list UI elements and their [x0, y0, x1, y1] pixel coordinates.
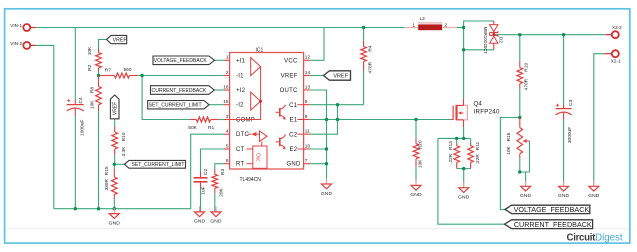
- svg-text:R19: R19: [524, 63, 530, 72]
- junction VIN rail R4: [362, 26, 365, 29]
- wire pin 7 stub: [310, 163, 327, 165]
- svg-text:8: 8: [305, 99, 308, 105]
- wire R4 branch from VIN rail: [363, 28, 365, 42]
- svg-text:C1: C1: [289, 103, 298, 109]
- svg-text:560: 560: [124, 67, 132, 73]
- svg-text:4: 4: [226, 129, 229, 135]
- wire SET_CURRENT_LIMIT stub: [114, 163, 124, 165]
- wire sense resistor top rail: [438, 137, 471, 139]
- net label VREF vertical: [110, 95, 119, 119]
- svg-text:1uF: 1uF: [201, 186, 207, 194]
- wire node to D2 anode top: [464, 21, 494, 28]
- wire R19 branch from output: [519, 35, 521, 61]
- svg-text:E2: E2: [289, 147, 297, 153]
- net label VOLTAGE_FEEDBACK bottom: [505, 205, 590, 214]
- wire emitter net down to GND: [326, 120, 328, 185]
- wire X2-1 return to GND: [594, 54, 605, 187]
- svg-text:SET_CURRENT_LIMIT: SET_CURRENT_LIMIT: [149, 103, 202, 109]
- wire CURRENT_FEEDBACK to pin 16: [214, 89, 224, 91]
- svg-text:3.3K: 3.3K: [121, 146, 127, 157]
- IC1 comparator output to COMP: [230, 67, 261, 120]
- svg-text:C2: C2: [289, 132, 298, 138]
- svg-text:2: 2: [226, 70, 229, 76]
- wire R13 top lead stub: [456, 138, 458, 143]
- svg-text:+I2: +I2: [236, 88, 246, 94]
- svg-text:C4: C4: [78, 97, 84, 103]
- wire R15 bottom to ground rail: [113, 199, 115, 209]
- wire VCC pin 12 to VIN rail: [310, 28, 324, 61]
- svg-text:VCC: VCC: [284, 58, 298, 64]
- svg-text:3000uF: 3000uF: [567, 127, 573, 143]
- junction -I1 node: [140, 74, 143, 77]
- svg-text:11: 11: [305, 129, 310, 135]
- wire SET_CURRENT_LIMIT to pin 15: [209, 104, 224, 106]
- svg-text:R2: R2: [87, 64, 93, 70]
- junction output rail C3: [562, 33, 565, 36]
- svg-text:VREF: VREF: [333, 74, 349, 80]
- wire OUTC pin 13 down to gate net: [310, 90, 327, 120]
- wire drain of Q4: [463, 50, 465, 99]
- resistor R8 10K: [89, 76, 101, 112]
- svg-text:CircuitDigest: CircuitDigest: [567, 232, 623, 243]
- transistor Q4 IRFP240: [451, 99, 500, 127]
- capacitor C2 1uF: [194, 169, 210, 195]
- net label SET_CURRENT_LIMIT pin15: [148, 101, 209, 109]
- junction gate net C2 tie: [336, 118, 339, 121]
- junction pin 10 emitter net: [325, 147, 328, 150]
- wire R10 bottom to node: [114, 155, 116, 164]
- IC1 left pin numbers 1 2 16 15 3 4 5 6: [223, 55, 229, 164]
- wire RT pin 6 to R3: [215, 164, 224, 170]
- svg-text:-I1: -I1: [236, 74, 244, 80]
- ground under IC1 emitter net: [321, 179, 333, 197]
- junction ground rail R15: [113, 207, 116, 210]
- junction sense bottom GND: [462, 167, 465, 170]
- junction gate net R20: [414, 118, 417, 121]
- svg-text:Osc: Osc: [254, 153, 260, 162]
- svg-text:1000uF: 1000uF: [80, 120, 86, 136]
- svg-text:10K: 10K: [506, 145, 512, 154]
- svg-text:IC1: IC1: [256, 47, 264, 53]
- svg-text:R13: R13: [448, 141, 454, 150]
- svg-text:GND: GND: [458, 195, 470, 201]
- wire source of Q4 to sense node: [463, 127, 465, 138]
- svg-text:.22R: .22R: [475, 154, 481, 165]
- resistor R19 470R: [517, 61, 530, 90]
- svg-text:CURRENT_FEEDBACK: CURRENT_FEEDBACK: [152, 88, 207, 94]
- junction pin 7 emitter net: [325, 162, 328, 165]
- resistor R13 .22R: [448, 141, 460, 169]
- svg-text:L2: L2: [420, 16, 426, 22]
- junction ground rail R8: [97, 207, 100, 210]
- svg-text:X2-2: X2-2: [612, 25, 622, 30]
- CircuitDigest logo: [567, 232, 623, 243]
- svg-text:VOLTAGE_FEEDBACK: VOLTAGE_FEEDBACK: [514, 205, 590, 214]
- IC1 internal transistor Q-b: [276, 134, 304, 149]
- svg-text:DTC: DTC: [236, 132, 249, 138]
- IC1 dead-time arrow: [248, 132, 260, 137]
- svg-text:R3: R3: [220, 169, 226, 175]
- IC1 internal transistor Q-a: [276, 105, 304, 120]
- svg-text:GND: GND: [410, 192, 422, 198]
- svg-text:10K: 10K: [87, 46, 93, 55]
- svg-text:+I1: +I1: [236, 58, 246, 64]
- wire L2 to node: [456, 27, 463, 29]
- svg-text:15: 15: [223, 99, 229, 105]
- junction gate net OUTC: [325, 118, 328, 121]
- wire VREF to R2: [99, 40, 107, 49]
- net label SET_CURRENT_LIMIT left: [124, 160, 185, 168]
- ground under R16: [520, 181, 532, 199]
- wire R8 bottom to ground rail: [98, 111, 100, 209]
- svg-text:16: 16: [223, 84, 229, 90]
- junction L2 output node top: [462, 26, 465, 29]
- wire current feedback drop: [438, 138, 505, 224]
- junction sense rail R13: [455, 137, 458, 140]
- wire C2 bottom to GND: [200, 188, 202, 212]
- wire sense GND stub: [463, 169, 465, 188]
- svg-text:9: 9: [305, 114, 308, 120]
- wire R1 to IC pin 3: [219, 119, 224, 121]
- wire R19 to R16 node: [519, 89, 521, 118]
- wire pot GND stub: [525, 172, 527, 186]
- svg-text:COMP: COMP: [236, 118, 255, 124]
- svg-text:-I2: -I2: [236, 103, 244, 109]
- resistor R20 10K: [413, 139, 423, 169]
- ground under C2: [194, 206, 206, 224]
- svg-text:7: 7: [305, 158, 308, 164]
- wire R2 bottom to node: [98, 72, 100, 76]
- IC1 right pin stubs: [304, 60, 310, 163]
- wire pin 8 to R4 bottom: [310, 104, 364, 106]
- net label CURRENT_FEEDBACK pin16: [151, 86, 215, 95]
- junction sense rail source: [462, 137, 465, 140]
- svg-text:E1: E1: [289, 118, 297, 124]
- wire C3 branch from output rail: [563, 35, 565, 105]
- svg-text:GND: GND: [194, 219, 206, 225]
- svg-text:50K: 50K: [188, 125, 197, 131]
- svg-text:VIN-2: VIN-2: [10, 41, 22, 46]
- junction D2 lower anode node: [462, 48, 465, 51]
- ground under R20: [410, 180, 422, 198]
- junction C1 net: [336, 103, 339, 106]
- junction R10/R15 SET_CURRENT_LIMIT node: [113, 163, 116, 166]
- svg-text:10K: 10K: [418, 159, 424, 168]
- wire gate net pin 9 to Q4 gate: [310, 119, 451, 121]
- net label VREF top-left: [107, 35, 127, 43]
- svg-text:R16: R16: [506, 132, 512, 141]
- ground under R15: [109, 208, 121, 226]
- wire R20 branch: [415, 120, 417, 139]
- svg-text:TL494CN: TL494CN: [240, 177, 262, 183]
- svg-text:R11: R11: [475, 141, 481, 150]
- svg-text:RT: RT: [236, 162, 244, 168]
- net label VOLTAGE_FEEDBACK pin1: [153, 56, 215, 65]
- resistor R3 20K: [212, 169, 226, 197]
- svg-text:R15: R15: [104, 166, 110, 175]
- svg-text:R20: R20: [418, 140, 424, 149]
- resistor R11 .22R: [468, 141, 481, 168]
- svg-text:VIN-1: VIN-1: [10, 23, 22, 28]
- faint divider line above logo: [6, 228, 630, 230]
- junction R16 bottom node: [518, 170, 521, 173]
- wire pin 10 stub: [310, 148, 327, 150]
- wire VOLTAGE_FEEDBACK to pin 1: [214, 59, 224, 61]
- svg-text:VREF: VREF: [113, 102, 119, 115]
- wire VREF label to R10: [114, 119, 116, 127]
- junction R2/R7 node: [97, 74, 100, 77]
- capacitor C4 1000uF: [67, 97, 86, 136]
- IC1 oscillator box: [247, 141, 268, 168]
- wire VREF pin 14 stub: [310, 75, 324, 77]
- wire VIN+ top rail: [35, 27, 405, 29]
- wire node to D2 anode bottom: [464, 28, 494, 50]
- resistor R10 3.3K: [112, 127, 127, 157]
- svg-text:SET_CURRENT_LIMIT: SET_CURRENT_LIMIT: [132, 162, 185, 168]
- wire VIN-2 to ground rail: [35, 45, 54, 208]
- junction R19/R16 feedback node: [518, 116, 521, 119]
- junction ground rail C4: [74, 207, 77, 210]
- wire R11 top lead stub: [470, 138, 472, 143]
- svg-text:GND: GND: [210, 219, 222, 225]
- svg-text:3: 3: [226, 114, 229, 120]
- terminal VIN-2: [10, 41, 36, 49]
- wire bottom ground rail: [54, 134, 224, 209]
- ground under R3: [210, 206, 222, 224]
- svg-text:R4: R4: [368, 45, 374, 51]
- ground under C3: [558, 181, 570, 199]
- svg-text:VOLTAGE_FEEDBACK: VOLTAGE_FEEDBACK: [154, 58, 208, 64]
- op-amp IC1 TL494CN body: [230, 47, 304, 183]
- ground under X2-1 return: [588, 181, 600, 199]
- wire CT pin 5 to C2: [201, 149, 224, 172]
- svg-text:X2-1: X2-1: [611, 58, 621, 63]
- svg-text:CURRENT_FEEDBACK: CURRENT_FEEDBACK: [514, 220, 592, 229]
- diode D2 MBR10D20CT: [483, 21, 504, 54]
- wire R20 bottom to GND: [415, 167, 417, 186]
- svg-text:20K: 20K: [218, 187, 224, 196]
- svg-text:14: 14: [305, 70, 311, 76]
- svg-text:MBR10D20CT: MBR10D20CT: [483, 27, 488, 55]
- IC1 comparator 1: [251, 58, 261, 76]
- IC1 comparator output junction dot: [259, 100, 262, 103]
- IC1 dead-time comparator triangle: [260, 131, 268, 141]
- svg-text:10: 10: [305, 143, 311, 149]
- resistor R2 10K: [87, 46, 102, 72]
- resistor R1 50K: [188, 117, 218, 131]
- svg-text:R10: R10: [121, 132, 127, 141]
- svg-text:470R: 470R: [368, 61, 374, 73]
- svg-text:GND: GND: [109, 220, 121, 226]
- IC1 right pin numbers 12 14 13 8 9 11 10 7: [305, 55, 311, 164]
- svg-text:12: 12: [305, 55, 311, 61]
- wire sense resistor bottom rail: [457, 168, 471, 170]
- svg-text:GND: GND: [287, 162, 302, 168]
- svg-text:C2: C2: [203, 169, 209, 175]
- svg-text:GND: GND: [321, 191, 333, 197]
- wire R4 bottom lead: [363, 71, 365, 105]
- net label VREF at pin 14: [324, 71, 351, 80]
- wire node R2/R7 row to IC pin 2: [99, 75, 102, 77]
- IC1 right pin names VCC VREF OUTC GND: [280, 58, 301, 167]
- wire C4 branch: [74, 28, 76, 101]
- svg-text:OUTC: OUTC: [280, 88, 298, 94]
- terminal VIN-1: [10, 23, 36, 31]
- wire -I1 node down to R1 row: [142, 76, 190, 120]
- wire C1-C2 tie: [310, 105, 338, 135]
- svg-text:1: 1: [412, 22, 415, 28]
- terminal X2-1: [605, 50, 621, 63]
- svg-text:R1: R1: [208, 125, 214, 131]
- svg-text:VREF: VREF: [113, 37, 127, 43]
- terminal X2-2: [606, 25, 622, 38]
- IC1 left pin stubs: [224, 60, 230, 163]
- svg-text:R7: R7: [105, 68, 111, 74]
- svg-text:GND: GND: [558, 193, 570, 199]
- wire R16 bottom to node: [519, 158, 521, 172]
- wire node to R15 top: [113, 164, 115, 169]
- wire R3 bottom to GND: [214, 193, 216, 212]
- svg-text:VREF: VREF: [281, 74, 298, 80]
- junction output rail R19: [518, 33, 521, 36]
- svg-text:.22R: .22R: [448, 153, 454, 164]
- svg-text:10K: 10K: [89, 100, 95, 109]
- svg-text:470R: 470R: [524, 78, 530, 90]
- resistor R15 330R: [104, 166, 117, 199]
- IC1 comparator 2: [251, 92, 261, 110]
- IC1 transistor pin names C1 E1 C2 E2: [289, 103, 298, 153]
- net label CURRENT_FEEDBACK bottom: [505, 220, 593, 229]
- inductor L2: [405, 16, 457, 30]
- IC1 left pin names: [236, 58, 255, 167]
- resistor R7 560: [101, 67, 138, 78]
- svg-text:D2: D2: [497, 37, 503, 43]
- svg-text:IRFP240: IRFP240: [474, 109, 500, 116]
- wire C3 bottom to GND: [563, 120, 565, 186]
- svg-text:13: 13: [305, 84, 311, 90]
- ground under sense resistors: [458, 182, 470, 200]
- svg-text:GND: GND: [588, 193, 600, 199]
- svg-text:GND: GND: [520, 193, 532, 199]
- svg-text:C3: C3: [568, 99, 574, 105]
- svg-text:5: 5: [226, 143, 229, 149]
- wire R16 wiper loop: [520, 141, 530, 172]
- capacitor C3 3000uF: [556, 99, 574, 143]
- resistor R4 470R: [361, 41, 374, 73]
- svg-text:6: 6: [226, 158, 229, 164]
- svg-text:CT: CT: [236, 147, 245, 153]
- svg-text:Q4: Q4: [474, 101, 483, 108]
- potentiometer R16 10K: [506, 118, 529, 159]
- svg-text:R8: R8: [89, 87, 95, 93]
- wire output rail from D2 to X2-2: [494, 34, 606, 36]
- svg-text:330R: 330R: [104, 179, 110, 191]
- wire voltage feedback tap: [500, 118, 519, 210]
- svg-text:2: 2: [444, 22, 447, 28]
- svg-text:1: 1: [226, 55, 229, 61]
